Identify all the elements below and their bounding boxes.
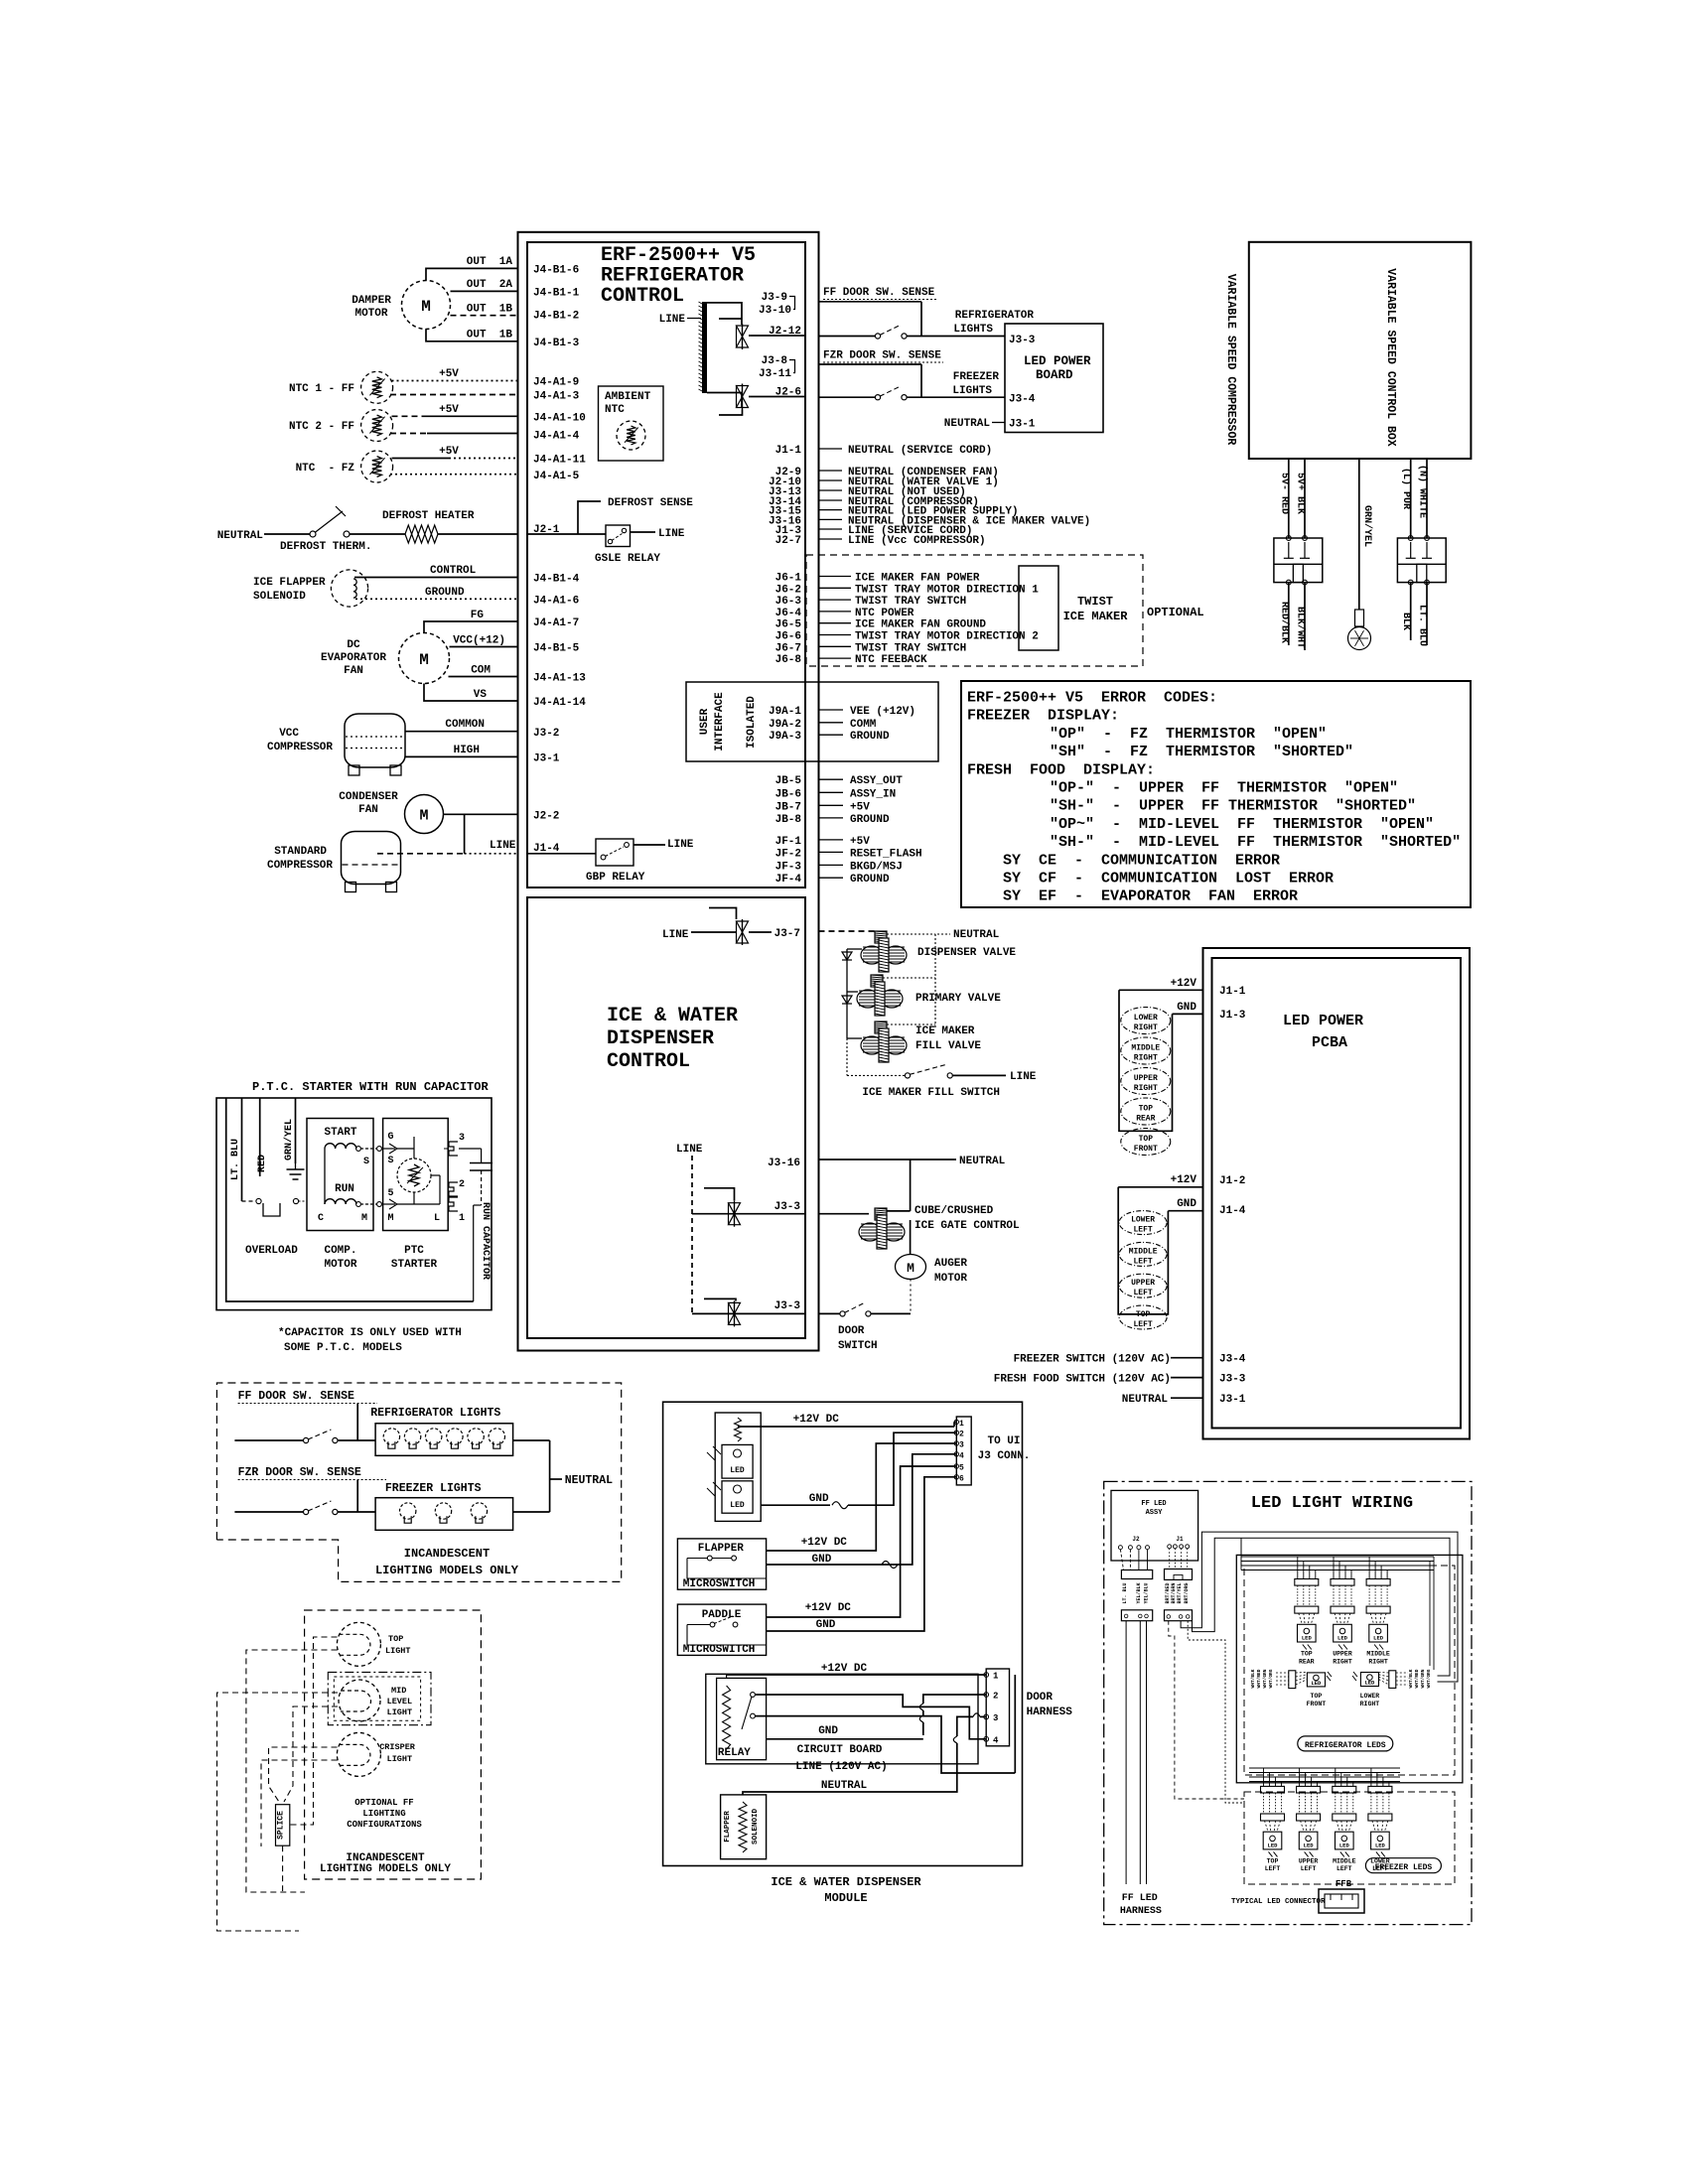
svg-text:RIGHT: RIGHT [1134, 1054, 1158, 1063]
svg-text:TOP: TOP [1267, 1857, 1279, 1864]
svg-text:ICE MAKER: ICE MAKER [915, 1025, 975, 1037]
wire start to PTC [356, 1147, 361, 1152]
svg-text:J3-1: J3-1 [533, 752, 560, 764]
svg-text:PTC: PTC [404, 1245, 424, 1257]
svg-text:GBP RELAY: GBP RELAY [586, 872, 645, 884]
svg-text:J6-8: J6-8 [775, 654, 802, 666]
svg-text:VCC: VCC [279, 728, 299, 740]
svg-text:FREEZER: FREEZER [953, 371, 1000, 383]
svg-text:J9A-1: J9A-1 [769, 706, 801, 718]
wire condenser fan to J2-2 [444, 813, 518, 815]
svg-text:UPPER: UPPER [1131, 1279, 1155, 1288]
wire J2-6 to FZR door switch [819, 396, 876, 398]
svg-text:2: 2 [459, 1179, 465, 1190]
svg-text:LED: LED [730, 1501, 745, 1510]
svg-text:TWIST: TWIST [1077, 595, 1113, 609]
svg-text:P.T.C. STARTER WITH RUN CAPACI: P.T.C. STARTER WITH RUN CAPACITOR [252, 1080, 489, 1094]
freezer leds dashed box [1244, 1792, 1455, 1884]
dotted tie to NEUTRAL [887, 933, 935, 935]
wire CONTROL [354, 577, 518, 579]
dc evaporator fan motor M2 [399, 633, 450, 684]
svg-text:J4-A1-11: J4-A1-11 [533, 455, 586, 467]
svg-text:SOLENOID: SOLENOID [253, 591, 306, 603]
svg-text:LED: LED [730, 1466, 745, 1475]
svg-text:TWIST TRAY SWITCH: TWIST TRAY SWITCH [855, 596, 966, 608]
bulb freezer 1 [400, 1503, 416, 1519]
wire GND (freezer leds) [1168, 1210, 1202, 1212]
svg-text:J3-9: J3-9 [762, 292, 787, 304]
svg-text:+12V DC: +12V DC [793, 1414, 840, 1426]
switch FF door (lights) [304, 1437, 309, 1442]
ff harness upper connector 2 [1165, 1570, 1193, 1580]
svg-text:OPTIONAL FF: OPTIONAL FF [354, 1798, 413, 1808]
svg-text:NTC FEEBACK: NTC FEEBACK [855, 654, 927, 666]
svg-text:REFRIGERATOR: REFRIGERATOR [955, 310, 1035, 322]
ff harness lower connector 2 [1165, 1610, 1193, 1621]
bracket over J3-7 connector [709, 908, 737, 920]
svg-text:FAN: FAN [358, 804, 378, 816]
svg-text:LINE: LINE [667, 839, 694, 851]
run capacitor [470, 1162, 492, 1164]
svg-text:COMPRESSOR: COMPRESSOR [267, 860, 333, 872]
variable speed control box [1249, 242, 1472, 459]
svg-text:LEVEL: LEVEL [387, 1697, 413, 1706]
wire OUT 1A [426, 268, 518, 280]
freezer led stack box [1118, 1187, 1168, 1314]
svg-text:L: L [434, 1213, 440, 1224]
svg-text:NTC - FZ: NTC - FZ [296, 463, 355, 475]
svg-text:J3-7: J3-7 [774, 928, 800, 940]
mid level light dash-dot box [328, 1672, 431, 1724]
svg-text:6: 6 [959, 1474, 964, 1483]
svg-text:MOTOR: MOTOR [354, 308, 387, 320]
bracket over J3-3b connector [704, 1298, 736, 1300]
wire fill switch LINE [953, 1074, 1007, 1076]
svg-text:J4-B1-5: J4-B1-5 [533, 643, 580, 655]
svg-text:LEFT: LEFT [1133, 1257, 1152, 1266]
svg-text:(L) PUR: (L) PUR [1400, 468, 1412, 509]
svg-text:PCBA: PCBA [1312, 1034, 1347, 1051]
wire heater to J2-1 [438, 533, 518, 535]
svg-text:PRIMARY VALVE: PRIMARY VALVE [915, 993, 1001, 1005]
svg-text:J3-3: J3-3 [774, 1201, 801, 1213]
wire flapper +12V DC [767, 1443, 957, 1551]
refrigerator control board outer box [518, 232, 819, 1351]
svg-text:LED: LED [1268, 1842, 1279, 1848]
svg-text:4: 4 [993, 1735, 999, 1745]
svg-text:+5V: +5V [850, 836, 870, 848]
svg-text:VS: VS [474, 689, 488, 701]
svg-text:J4-B1-2: J4-B1-2 [533, 311, 579, 323]
svg-text:SOLENOID: SOLENOID [752, 1809, 760, 1845]
svg-text:LINE: LINE [659, 314, 686, 326]
svg-text:LEFT: LEFT [1133, 1320, 1152, 1329]
wire LINE dotted to J1-4 [465, 853, 518, 855]
cube/crushed ice gate valve [859, 1215, 905, 1249]
svg-text:LED: LED [1302, 1635, 1313, 1642]
svg-text:FF DOOR SW. SENSE: FF DOOR SW. SENSE [823, 287, 935, 299]
stadium REFRIGERATOR LEDS [1298, 1736, 1393, 1751]
svg-text:J2-6: J2-6 [775, 387, 801, 399]
svg-text:MID: MID [391, 1686, 406, 1696]
svg-text:FZR DOOR SW. SENSE: FZR DOOR SW. SENSE [823, 350, 941, 362]
svg-text:STANDARD: STANDARD [274, 846, 327, 858]
svg-text:M: M [361, 1213, 367, 1224]
bracket under J2-6 connector [719, 410, 743, 416]
svg-text:J3 CONN.: J3 CONN. [978, 1450, 1031, 1462]
auger motor M4 [896, 1255, 926, 1280]
svg-text:J9A-3: J9A-3 [769, 731, 801, 743]
wire neutral to defrost thermostat [264, 533, 310, 535]
bulb refrigerator 5 [468, 1429, 484, 1444]
svg-text:OVERLOAD: OVERLOAD [245, 1245, 298, 1257]
wire (N) WHITE [1426, 459, 1428, 538]
thermistor NTC 2 - FF [361, 410, 393, 442]
svg-text:WHT/BLK: WHT/BLK [1408, 1669, 1414, 1688]
svg-text:DC: DC [347, 639, 360, 651]
LED POWER BOARD box [1005, 324, 1103, 433]
svg-text:M: M [419, 651, 429, 669]
wire VCC(+12) [450, 646, 518, 648]
svg-text:GND: GND [1177, 1198, 1196, 1210]
svg-text:VARIABLE SPEED CONTROL BOX: VARIABLE SPEED CONTROL BOX [1384, 268, 1397, 447]
svg-text:FLAPPER: FLAPPER [698, 1543, 745, 1555]
svg-text:GROUND: GROUND [850, 731, 890, 743]
svg-text:"SH-" - MID-LEVEL FF THERM: "SH-" - MID-LEVEL FF THERMISTOR "SHORTED… [1050, 834, 1461, 851]
svg-text:LED: LED [1337, 1635, 1348, 1642]
svg-text:J6-5: J6-5 [775, 619, 802, 631]
svg-text:LIGHTING MODELS ONLY: LIGHTING MODELS ONLY [320, 1863, 451, 1875]
svg-text:J4-A1-6: J4-A1-6 [533, 595, 579, 607]
wire connector to J2-12 pin [749, 335, 805, 337]
wire FZR door sense feed [819, 363, 922, 365]
svg-text:SY CE - COMMUNICATION ERRO: SY CE - COMMUNICATION ERROR [1003, 852, 1280, 869]
svg-text:J4-A1-3: J4-A1-3 [533, 391, 580, 403]
svg-text:FLAPPER: FLAPPER [724, 1811, 732, 1843]
freezer bus rows [1249, 1767, 1400, 1769]
wire FG [424, 621, 518, 633]
svg-text:WHT/BLK: WHT/BLK [1250, 1669, 1256, 1688]
led MIDDLE RIGHT [1121, 1037, 1171, 1064]
svg-text:COMM: COMM [850, 719, 877, 731]
svg-text:J4-B1-1: J4-B1-1 [533, 288, 580, 300]
svg-text:LOWER: LOWER [1131, 1216, 1155, 1225]
connector TO UI J3 [956, 1417, 971, 1485]
svg-text:FREEZER LIGHTS: FREEZER LIGHTS [385, 1482, 482, 1495]
ambient NTC box [599, 386, 664, 461]
diode D1 [846, 949, 848, 992]
svg-text:LOWER: LOWER [1360, 1693, 1380, 1700]
wire LT. BLU [241, 1098, 243, 1201]
svg-text:J3-3: J3-3 [1009, 335, 1036, 346]
svg-text:2: 2 [993, 1692, 998, 1702]
led TOP REAR [1121, 1098, 1171, 1125]
freezer LED module MIDDLE LEFT [1333, 1786, 1356, 1793]
circuit board box [706, 1674, 978, 1764]
wire relay lower contact to LINE [756, 1716, 1016, 1773]
winding common wire [324, 1149, 326, 1204]
svg-text:LEFT: LEFT [1133, 1289, 1152, 1297]
vertical neutral drop [910, 1160, 912, 1211]
top row LED module MIDDLE RIGHT [1366, 1579, 1390, 1586]
wire ff switch feed [234, 1439, 303, 1441]
ice & water dispenser module box [663, 1402, 1023, 1865]
dispenser LED assembly box [715, 1413, 761, 1521]
svg-text:JB-5: JB-5 [775, 775, 802, 787]
svg-text:J4-A1-10: J4-A1-10 [533, 412, 586, 424]
ff led harness wires down [1125, 1621, 1127, 1884]
led LOWER LEFT [1119, 1211, 1167, 1235]
twist ice maker optional dashed box [806, 555, 1143, 666]
wire valve to auger motor [910, 1220, 912, 1255]
wire J3-3 to cube valve [819, 1213, 870, 1215]
svg-text:"SH-" - UPPER FF THERMISTOR: "SH-" - UPPER FF THERMISTOR "SHORTED" [1050, 798, 1416, 815]
svg-text:LIGHT: LIGHT [387, 1707, 413, 1717]
svg-text:JF-3: JF-3 [775, 861, 802, 873]
svg-text:CONDENSER: CONDENSER [339, 791, 398, 803]
wire J3-3 row 1 [692, 1213, 805, 1215]
wire run to PTC [356, 1202, 361, 1207]
svg-text:JB-6: JB-6 [775, 788, 801, 800]
svg-text:WHT/RED: WHT/RED [1256, 1669, 1262, 1688]
mid level light bulb [339, 1680, 380, 1721]
dispenser valve top pin [875, 931, 887, 943]
wire +12V DC (led) [737, 1418, 739, 1427]
refrigerator led stack box [1119, 990, 1173, 1131]
svg-text:REFRIGERATOR LEDS: REFRIGERATOR LEDS [1305, 1741, 1386, 1750]
refrigerator leds box [1236, 1555, 1463, 1782]
svg-text:OPTIONAL: OPTIONAL [1147, 606, 1204, 619]
svg-text:J2-12: J2-12 [769, 326, 801, 338]
wire NEUTRAL solenoid to pin 3 [743, 1743, 957, 1795]
svg-text:GND: GND [818, 1725, 838, 1737]
wire LINE bar top feed [707, 303, 742, 325]
led TOP LEFT [1119, 1305, 1167, 1329]
wire HIGH [405, 755, 518, 757]
svg-text:J3-11: J3-11 [759, 368, 791, 380]
svg-text:C: C [318, 1213, 324, 1224]
svg-text:CIRCUIT BOARD: CIRCUIT BOARD [797, 1744, 883, 1756]
svg-text:BRT/RED: BRT/RED [1165, 1582, 1171, 1603]
ptc internal wires [413, 1137, 415, 1159]
svg-text:WHT/RED: WHT/RED [1414, 1669, 1420, 1688]
wire FF switch to LED power board J3-3 [907, 336, 1005, 338]
svg-text:DAMPER: DAMPER [352, 295, 391, 307]
bracket over J3-3a connector [704, 1188, 735, 1201]
svg-text:J3-1: J3-1 [1009, 419, 1036, 431]
wire BLK [1410, 583, 1412, 640]
svg-text:TWIST TRAY MOTOR DIRECTION 2: TWIST TRAY MOTOR DIRECTION 2 [855, 631, 1039, 643]
ground symbol [295, 1163, 297, 1169]
led LOWER RIGHT [1121, 1008, 1171, 1034]
svg-text:EVAPORATOR: EVAPORATOR [321, 652, 386, 664]
svg-text:UPPER: UPPER [1299, 1857, 1319, 1864]
svg-text:NTC 2 - FF: NTC 2 - FF [289, 421, 354, 433]
splice [276, 1805, 290, 1846]
svg-text:JF-1: JF-1 [775, 836, 802, 848]
svg-text:CONTROL: CONTROL [430, 565, 477, 577]
cube/crushed valve top pin [875, 1208, 887, 1220]
svg-text:S: S [363, 1157, 369, 1167]
primary valve top pin [871, 975, 883, 987]
svg-text:ISOLATED: ISOLATED [746, 696, 758, 749]
svg-text:TWIST TRAY SWITCH: TWIST TRAY SWITCH [855, 642, 966, 654]
svg-text:5V+ BLK: 5V+ BLK [1295, 473, 1306, 514]
wire LINE riser along connector [1014, 1675, 1016, 1773]
bulb refrigerator 1 [383, 1429, 399, 1444]
svg-text:RED/BLK: RED/BLK [1278, 602, 1290, 643]
svg-text:AUGER: AUGER [934, 1258, 967, 1270]
crisper light bulb [337, 1732, 380, 1776]
svg-text:LINE: LINE [658, 528, 685, 540]
svg-text:DOOR: DOOR [838, 1325, 865, 1337]
wire NTC2 return [390, 433, 427, 435]
svg-text:J3-10: J3-10 [759, 305, 791, 317]
wire crisper lower (dashed) [261, 1760, 338, 1846]
svg-text:ICE MAKER: ICE MAKER [1063, 610, 1129, 623]
svg-text:GROUND: GROUND [425, 587, 465, 599]
svg-text:LIGHTING: LIGHTING [362, 1809, 405, 1819]
svg-text:J3-2: J3-2 [533, 728, 559, 740]
svg-text:J1-1: J1-1 [1219, 986, 1246, 998]
wire OUT 1B [426, 330, 518, 341]
svg-text:J4-B1-4: J4-B1-4 [533, 574, 580, 586]
wire paddle GND [767, 1477, 957, 1631]
line bus bar [702, 302, 707, 393]
svg-text:LEFT: LEFT [1336, 1865, 1352, 1872]
svg-text:"OP~" - MID-LEVEL FF THERM: "OP~" - MID-LEVEL FF THERMISTOR "OPEN" [1050, 816, 1434, 833]
svg-text:COMMON: COMMON [445, 719, 485, 731]
thermistor NTC - FZ [361, 451, 393, 482]
wire fzr switch feed [234, 1511, 303, 1513]
svg-text:LED: LED [1375, 1842, 1386, 1848]
wire top light upper (dashed) [290, 1637, 338, 1825]
svg-text:+5V: +5V [439, 404, 459, 416]
bulb refrigerator 6 [489, 1429, 504, 1444]
svg-text:WHT/GRN: WHT/GRN [1262, 1669, 1268, 1688]
svg-text:CONTROL: CONTROL [607, 1050, 690, 1073]
svg-text:STARTER: STARTER [391, 1259, 438, 1271]
svg-text:MODULE: MODULE [824, 1891, 867, 1905]
connector J3-7 (bowtie) [742, 919, 744, 945]
svg-text:J4-B1-3: J4-B1-3 [533, 338, 580, 349]
ptc thermistor [397, 1159, 431, 1192]
svg-text:1: 1 [959, 1420, 964, 1429]
svg-text:COMP.: COMP. [324, 1245, 356, 1257]
svg-text:FF LED: FF LED [1141, 1500, 1166, 1508]
connector J2-12 (bowtie) [742, 324, 744, 349]
svg-text:MIDDLE: MIDDLE [1366, 1651, 1390, 1658]
svg-text:REFRIGERATOR LIGHTS: REFRIGERATOR LIGHTS [370, 1407, 500, 1420]
svg-text:INCANDESCENT: INCANDESCENT [404, 1547, 490, 1561]
svg-text:3: 3 [959, 1441, 964, 1450]
wire +12V (freezer leds) [1118, 1186, 1202, 1188]
bulb freezer 3 [471, 1503, 487, 1519]
svg-text:FAN: FAN [344, 665, 363, 677]
svg-text:RIGHT: RIGHT [1134, 1024, 1158, 1032]
refrigerator led bus rows [1241, 1556, 1434, 1558]
wire valve1 left arm [847, 948, 862, 950]
dotted wire auger to door switch [910, 1280, 912, 1314]
svg-text:+12V DC: +12V DC [821, 1663, 868, 1675]
svg-text:ASSY_OUT: ASSY_OUT [850, 775, 903, 787]
flapper solenoid box [721, 1795, 767, 1859]
svg-text:TOP: TOP [1139, 1135, 1154, 1144]
ambient NTC thermistor [617, 421, 645, 450]
thermistor NTC 1 - FF [361, 371, 393, 403]
wire NTC FZ return (dotted) [390, 474, 518, 476]
svg-text:ICE MAKER FILL SWITCH: ICE MAKER FILL SWITCH [862, 1087, 1000, 1099]
freezer LED module LOWER LEFT [1368, 1786, 1392, 1793]
svg-text:M: M [388, 1213, 394, 1224]
svg-text:OUT 2A: OUT 2A [467, 279, 513, 291]
svg-text:TWIST TRAY MOTOR DIRECTION 1: TWIST TRAY MOTOR DIRECTION 1 [855, 584, 1039, 596]
svg-text:1: 1 [993, 1672, 999, 1682]
svg-text:SOME P.T.C. MODELS: SOME P.T.C. MODELS [284, 1342, 402, 1354]
wire COMMON [405, 731, 518, 733]
ice & water dispenser control inner box [527, 897, 805, 1338]
svg-text:*CAPACITOR IS ONLY USED WITH: *CAPACITOR IS ONLY USED WITH [278, 1327, 462, 1339]
svg-text:NTC 1 - FF: NTC 1 - FF [289, 383, 354, 395]
svg-text:REAR: REAR [1299, 1658, 1315, 1665]
svg-text:J4-A1-13: J4-A1-13 [533, 673, 586, 685]
svg-text:NTC: NTC [605, 404, 625, 416]
svg-text:BRT/YEL: BRT/YEL [1177, 1582, 1183, 1603]
svg-text:LIGHT: LIGHT [385, 1646, 411, 1656]
svg-text:RUN CAPACITOR: RUN CAPACITOR [480, 1202, 491, 1280]
wire J3-3 row2 to door switch [819, 1312, 841, 1314]
vcc compressor [345, 714, 405, 767]
ff led assy box [1111, 1490, 1198, 1561]
svg-text:J2-2: J2-2 [533, 810, 559, 822]
ground ring terminal GRN/YEL [1355, 610, 1364, 626]
svg-text:COM: COM [471, 665, 491, 677]
svg-text:FREEZER DISPLAY:: FREEZER DISPLAY: [967, 708, 1119, 725]
svg-text:GSLE RELAY: GSLE RELAY [595, 553, 660, 565]
primary valve [857, 982, 903, 1016]
svg-text:YEL/BLK: YEL/BLK [1136, 1582, 1142, 1603]
svg-text:DEFROST HEATER: DEFROST HEATER [382, 510, 475, 522]
svg-text:5V- RED: 5V- RED [1278, 473, 1289, 514]
svg-text:BLK: BLK [1400, 613, 1411, 630]
svg-text:BRT/GRN: BRT/GRN [1171, 1582, 1177, 1603]
svg-text:3: 3 [993, 1713, 998, 1723]
svg-text:J4-A1-7: J4-A1-7 [533, 617, 579, 629]
led 2 box [722, 1481, 753, 1513]
paddle microswitch box [677, 1604, 766, 1655]
svg-text:BKGD/MSJ: BKGD/MSJ [850, 861, 903, 873]
svg-text:PADDLE: PADDLE [702, 1609, 742, 1621]
svg-text:J3-8: J3-8 [762, 355, 788, 367]
svg-text:REAR: REAR [1136, 1115, 1155, 1124]
svg-text:CUBE/CRUSHED: CUBE/CRUSHED [914, 1205, 994, 1217]
wire LT. BLU [1426, 583, 1428, 645]
wire defrost sense branch [578, 501, 601, 534]
svg-text:FFB: FFB [1336, 1879, 1352, 1889]
wire COM [449, 676, 518, 678]
svg-text:NEUTRAL: NEUTRAL [1122, 1394, 1169, 1406]
svg-text:JF-4: JF-4 [775, 874, 802, 886]
svg-text:+5V: +5V [439, 368, 459, 380]
svg-text:RIGHT: RIGHT [1333, 1658, 1352, 1665]
wire top light lower (dashed) [246, 1650, 338, 1892]
svg-text:MIDDLE: MIDDLE [1333, 1857, 1356, 1864]
svg-text:GRN/YEL: GRN/YEL [283, 1119, 295, 1160]
svg-text:WHT/GRN: WHT/GRN [1420, 1669, 1426, 1688]
stadium FREEZER LEDS [1365, 1858, 1441, 1873]
svg-text:J2: J2 [1132, 1536, 1140, 1543]
wire GND riser to pin 2 [767, 1738, 923, 1740]
